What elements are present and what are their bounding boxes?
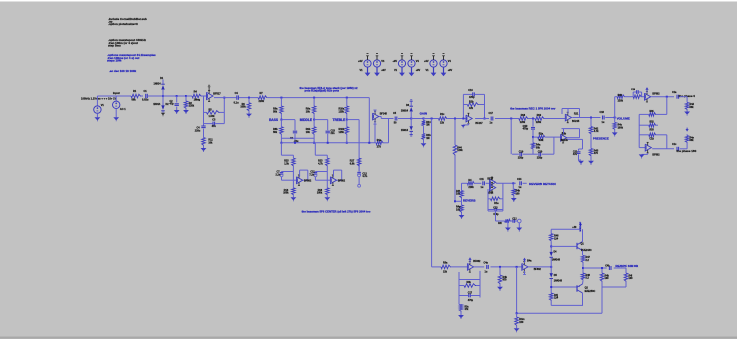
svg-text:4.7k: 4.7k — [594, 130, 599, 133]
svg-text:100: 100 — [516, 193, 521, 196]
svg-text:120k: 120k — [520, 121, 526, 124]
svg-text:470p: 470p — [469, 96, 475, 99]
svg-text:REVERB: REVERB — [463, 199, 476, 203]
svg-text:220k: 220k — [468, 186, 474, 189]
svg-text:22k: 22k — [443, 270, 448, 273]
svg-text:47p: 47p — [170, 103, 175, 106]
svg-text:470p: 470p — [523, 128, 529, 131]
svg-text:BF862: BF862 — [652, 92, 660, 95]
svg-text:.option plotwinsize=0: .option plotwinsize=0 — [108, 22, 138, 26]
svg-text:1N914: 1N914 — [401, 129, 409, 132]
svg-text:47k: 47k — [469, 107, 474, 110]
svg-text:100k: 100k — [618, 126, 624, 129]
svg-text:+9V: +9V — [358, 60, 363, 63]
svg-text:R2a: R2a — [539, 132, 544, 135]
svg-text:R3c: R3c — [465, 306, 470, 308]
svg-text:.ac dec 100 10 100k: .ac dec 100 10 100k — [109, 69, 136, 73]
svg-text:C1a: C1a — [672, 91, 677, 94]
svg-text:BF862: BF862 — [652, 153, 660, 156]
svg-text:(R)2: (R)2 — [489, 191, 494, 194]
svg-text:1N4148: 1N4148 — [552, 258, 561, 261]
svg-text:22n: 22n — [331, 132, 336, 135]
svg-text:56k: 56k — [690, 139, 695, 142]
svg-text:C18: C18 — [600, 111, 605, 114]
svg-text:BF17: BF17 — [487, 177, 494, 180]
svg-text:10k: 10k — [456, 193, 461, 196]
svg-text:220k: 220k — [189, 105, 195, 108]
svg-text:C11: C11 — [480, 178, 485, 181]
svg-text:C20: C20 — [538, 150, 543, 153]
svg-text:+9V: +9V — [393, 60, 398, 63]
svg-text:R19: R19 — [537, 114, 542, 117]
svg-text:the bassman 5F6 CENTER (all le: the bassman 5F6 CENTER (all left 27k) 5F… — [302, 209, 371, 213]
svg-text:68k: 68k — [132, 98, 137, 101]
svg-text:R1a: R1a — [377, 139, 382, 142]
svg-text:+9V: +9V — [424, 60, 429, 63]
svg-text:R1c: R1c — [440, 113, 445, 116]
svg-text:7.2n: 7.2n — [309, 173, 314, 176]
svg-text:R2b: R2b — [469, 101, 474, 104]
svg-text:1M: 1M — [426, 123, 429, 126]
svg-text:1.3k: 1.3k — [284, 162, 289, 165]
svg-text:R4b: R4b — [562, 132, 567, 135]
svg-text:10k: 10k — [306, 131, 311, 134]
svg-text:C4a: C4a — [484, 262, 489, 265]
svg-text:REVERB RETURN: REVERB RETURN — [529, 182, 556, 186]
svg-text:BF247: BF247 — [475, 122, 483, 125]
svg-text:0.1u: 0.1u — [234, 101, 239, 104]
svg-text:R32: R32 — [650, 122, 655, 124]
svg-text:C13: C13 — [493, 208, 498, 210]
svg-text:27k: 27k — [377, 146, 382, 149]
svg-text:step 5ms: step 5ms — [108, 43, 121, 47]
svg-text:C4b: C4b — [605, 264, 610, 267]
svg-text:100: 100 — [605, 277, 610, 280]
svg-text:C12: C12 — [512, 218, 517, 220]
svg-text:BF245: BF245 — [572, 120, 580, 123]
svg-text:C17: C17 — [468, 293, 473, 295]
svg-text:1N914: 1N914 — [153, 103, 161, 106]
svg-text:120p: 120p — [537, 156, 543, 159]
svg-text:pots R2a(all)(all) R2b pots: pots R2a(all)(all) R2b pots — [305, 89, 340, 93]
svg-text:56k: 56k — [690, 106, 695, 109]
svg-text:R30: R30 — [618, 94, 623, 97]
svg-text:+40: +40 — [572, 226, 577, 229]
svg-text:6.8k: 6.8k — [350, 162, 355, 165]
svg-text:4.7n: 4.7n — [362, 175, 367, 178]
svg-text:+9V: +9V — [448, 69, 453, 72]
svg-text:1M: 1M — [426, 137, 429, 140]
svg-text:100: 100 — [629, 277, 634, 280]
svg-text:56k: 56k — [273, 110, 278, 113]
svg-text:BF862: BF862 — [473, 260, 481, 263]
svg-text:100k: 100k — [240, 106, 246, 109]
svg-text:124: 124 — [554, 237, 559, 240]
svg-text:0.02u: 0.02u — [142, 98, 149, 101]
svg-text:R31: R31 — [650, 111, 655, 113]
svg-text:100k: 100k — [283, 192, 289, 195]
svg-text:220k: 220k — [618, 99, 624, 102]
svg-text:150: 150 — [519, 321, 524, 324]
svg-text:R1a: R1a — [494, 203, 499, 205]
svg-text:C17: C17 — [489, 112, 494, 115]
svg-text:47u: 47u — [212, 125, 217, 128]
svg-text:124: 124 — [554, 297, 559, 300]
svg-text:C14: C14 — [517, 178, 522, 181]
svg-text:120k: 120k — [536, 121, 542, 124]
svg-text:100kHz 1.1Vrms + + + 10+ 1V: 100kHz 1.1Vrms + + + 10+ 1V — [81, 97, 117, 101]
svg-text:MJE253C: MJE253C — [585, 290, 596, 293]
svg-text:R33: R33 — [650, 129, 655, 131]
svg-text:B4a: B4a — [527, 260, 532, 263]
svg-text:1N4148: 1N4148 — [554, 280, 563, 283]
svg-text:VOLUME: VOLUME — [617, 117, 630, 121]
svg-text:the bassman REC 1 5F6 2004 rev: the bassman REC 1 5F6 2004 rev — [510, 106, 556, 110]
svg-text:R4i: R4i — [498, 222, 502, 225]
svg-text:TREBLE: TREBLE — [333, 118, 346, 122]
svg-text:470: 470 — [594, 152, 599, 155]
svg-text:Input: Input — [113, 91, 120, 95]
svg-text:BF245: BF245 — [561, 139, 569, 142]
svg-text:R18: R18 — [521, 114, 526, 117]
svg-text:BF517: BF517 — [213, 92, 221, 95]
svg-text:1N914: 1N914 — [401, 110, 409, 113]
svg-text:C1c: C1c — [672, 143, 677, 146]
svg-text:6.8k: 6.8k — [539, 139, 544, 142]
svg-text:AC 1: AC 1 — [120, 108, 126, 111]
svg-text:+9V: +9V — [416, 69, 421, 72]
svg-text:C1b: C1b — [650, 139, 655, 141]
svg-text:125k: 125k — [339, 110, 345, 113]
svg-text:120p: 120p — [518, 156, 524, 159]
svg-text:BF862: BF862 — [534, 268, 542, 271]
svg-text:C19: C19 — [519, 150, 524, 153]
svg-text:10k: 10k — [306, 110, 311, 113]
svg-text:R3b: R3b — [467, 282, 472, 284]
svg-text:470p: 470p — [468, 299, 474, 302]
svg-text:MIDDLE: MIDDLE — [300, 118, 312, 122]
svg-text:470: 470 — [503, 279, 508, 282]
svg-text:2.2n: 2.2n — [276, 173, 281, 176]
svg-text:.include CornellDubilier.sub: .include CornellDubilier.sub — [108, 17, 147, 21]
svg-text:MJE243C: MJE243C — [579, 221, 582, 231]
svg-text:R21: R21 — [574, 113, 579, 116]
svg-text:100k: 100k — [317, 192, 323, 195]
svg-text:PRESENCE: PRESENCE — [593, 136, 609, 140]
svg-text:R3a: R3a — [443, 262, 448, 265]
svg-text:30k: 30k — [536, 146, 541, 149]
svg-text:22k: 22k — [440, 122, 445, 125]
svg-text:GAIN: GAIN — [420, 111, 428, 115]
svg-text:56k: 56k — [273, 131, 278, 134]
svg-text:220u: 220u — [195, 130, 201, 133]
svg-text:10k: 10k — [208, 142, 213, 145]
svg-text:C16: C16 — [468, 89, 473, 92]
svg-text:10k: 10k — [456, 209, 461, 212]
svg-text:470p: 470p — [493, 213, 499, 216]
svg-text:steps 10%: steps 10% — [107, 59, 122, 63]
svg-text:BF862: BF862 — [338, 180, 346, 183]
svg-text:RE/SPK SIM 8R: RE/SPK SIM 8R — [615, 264, 638, 268]
svg-text:the phase 180: the phase 180 — [676, 149, 696, 153]
svg-text:120k: 120k — [457, 149, 463, 152]
svg-text:1.54k: 1.54k — [209, 115, 216, 118]
svg-text:BF245: BF245 — [380, 113, 388, 116]
svg-text:BASS: BASS — [269, 118, 278, 122]
svg-text:125k: 125k — [339, 131, 345, 134]
svg-text:1N914: 1N914 — [154, 82, 162, 85]
svg-text:BF862: BF862 — [304, 180, 312, 183]
svg-text:4.7k: 4.7k — [318, 162, 323, 165]
svg-text:47u: 47u — [573, 153, 578, 156]
svg-text:1Meg: 1Meg — [194, 99, 201, 102]
svg-text:220k: 220k — [259, 100, 265, 103]
svg-text:+9V: +9V — [381, 69, 386, 72]
